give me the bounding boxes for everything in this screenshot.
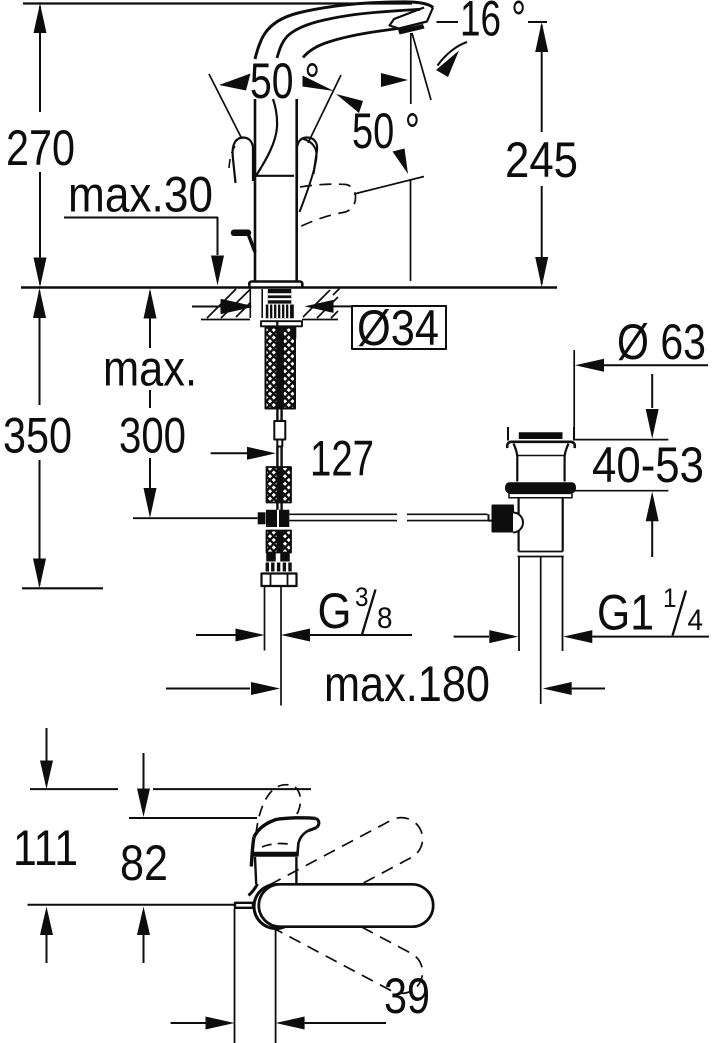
faucet base flange — [249, 282, 302, 288]
dimension diameter 34 arrows — [192, 300, 251, 313]
dimension 39 extension lines — [235, 909, 276, 1043]
svg-text:Ø 63: Ø 63 — [617, 314, 706, 370]
50 deg second open-position line — [354, 177, 424, 195]
bottom view handle under curve — [297, 831, 308, 857]
dimension diameter 63 arrow — [575, 359, 604, 372]
deck hatching left — [207, 289, 250, 318]
dimension G1 1/4 arrows — [454, 636, 489, 638]
bottom view handle grip dash — [262, 843, 290, 847]
hose collar bands — [266, 553, 291, 572]
dashed handle open position — [297, 184, 356, 228]
bottom view cartridge bar — [252, 852, 298, 857]
rod connector — [274, 421, 285, 447]
svg-text:127: 127 — [310, 431, 374, 487]
bottom view body flare — [249, 884, 258, 896]
svg-text:G1: G1 — [597, 585, 654, 641]
dimension G3/8 text — [318, 582, 393, 639]
bottom view handle top edge — [254, 818, 316, 837]
svg-text:8: 8 — [377, 602, 393, 635]
16 deg slanted line — [412, 33, 431, 100]
bottom view handle tip — [309, 818, 319, 830]
dimension 111 upper line — [30, 788, 311, 790]
horseshoe washer — [261, 321, 302, 326]
shank left gap line — [261, 289, 263, 318]
bottom view dashed spout upper position — [251, 810, 430, 932]
bottom view dashed spout lower position — [251, 879, 430, 1001]
svg-text:G: G — [318, 583, 352, 639]
svg-text:111: 111 — [13, 820, 78, 876]
drain body lower — [519, 498, 563, 552]
linkage tee block — [258, 512, 266, 524]
dimension 40-53 extension lines — [574, 440, 669, 491]
dimension 16 deg label line — [437, 21, 548, 23]
drain side port — [493, 506, 514, 532]
svg-text:50 °: 50 ° — [352, 103, 420, 159]
bottom view handle left edge — [251, 837, 254, 867]
drain center rod — [540, 557, 542, 704]
dimension diameter 63 extension line — [573, 350, 575, 438]
dimension 270 line — [39, 6, 41, 284]
svg-text:245: 245 — [505, 132, 578, 188]
handle knob left extreme lobe — [233, 138, 253, 184]
drain flange plate bottom lip — [507, 442, 575, 448]
svg-text:3: 3 — [355, 582, 369, 612]
drain flange plate sides — [508, 427, 574, 441]
svg-text:82: 82 — [120, 835, 168, 891]
50 deg first left ray — [209, 74, 242, 139]
drain bottom joint — [518, 552, 564, 557]
knurled section 3 — [267, 531, 292, 553]
bottom extension line (350) — [22, 587, 103, 589]
handle knob right extreme lobe — [297, 138, 317, 181]
dimension 111 down arrow — [46, 728, 48, 762]
svg-text:1: 1 — [663, 583, 677, 613]
svg-text:270: 270 — [6, 120, 75, 176]
handle knob left dashes — [229, 146, 235, 168]
bottom view dashed handle position — [256, 785, 300, 834]
drain neck line — [517, 455, 564, 457]
shank thread block — [268, 289, 292, 304]
svg-text:300: 300 — [119, 408, 186, 464]
linkage horizontal rod — [289, 514, 487, 520]
drain ball joint — [513, 513, 523, 533]
bottom view body circle — [254, 885, 298, 929]
dimension 82 upper line — [129, 817, 257, 819]
dimension 40-53 arrows — [651, 374, 653, 408]
handle neutral top bar — [256, 175, 294, 177]
handle knob right edge extension — [300, 139, 317, 212]
bottom view spout solid — [259, 884, 433, 926]
rod between connector and knurl 2 — [277, 447, 281, 468]
dimension 82 up arrow — [137, 907, 150, 936]
deck line — [21, 286, 557, 288]
pop-up pull rod knob — [234, 230, 248, 237]
spout tip end face — [390, 8, 434, 29]
16 deg arrowhead on vertical line — [381, 73, 408, 87]
svg-text:4: 4 — [688, 604, 704, 637]
pull rod upper — [277, 409, 281, 422]
svg-text:max.30: max.30 — [68, 167, 213, 223]
dimension G3/8 arrows — [196, 634, 236, 636]
faucet spout outer curve — [255, 2, 433, 59]
svg-text:Ø34: Ø34 — [357, 300, 439, 356]
top extension line — [23, 2, 412, 4]
dimension 245 line — [541, 25, 543, 284]
svg-text:40-53: 40-53 — [592, 437, 704, 493]
50 deg first right ray — [308, 75, 341, 143]
mounting hole edge left — [249, 289, 251, 319]
rod below knurl 2 — [277, 503, 281, 511]
svg-text:39: 39 — [384, 968, 430, 1024]
drain linkage left line — [133, 517, 258, 519]
16 deg vertical reference line — [410, 33, 412, 104]
drain seal ring — [505, 482, 576, 493]
drain tailpipe — [519, 557, 563, 651]
dimension max.30 leader — [64, 218, 218, 256]
hose nut — [262, 574, 297, 587]
dimension diameter 34 box — [352, 306, 446, 349]
dimension 82 down arrow — [143, 753, 145, 790]
dimension 39 arrows — [171, 1022, 206, 1024]
50 deg second arrowhead on handle ray — [336, 94, 363, 113]
svg-text:350: 350 — [3, 408, 72, 464]
dimension max.300 line — [149, 292, 151, 490]
flexible hose knurled section 1 — [266, 328, 297, 409]
faucet body sides — [255, 99, 297, 282]
svg-text:max.: max. — [103, 341, 197, 397]
drain top cap — [519, 432, 563, 439]
svg-text:max.180: max.180 — [324, 656, 490, 712]
50 deg second arrowhead on open line — [393, 149, 409, 175]
deck section bottom edges — [201, 319, 338, 321]
dimension 350 line — [39, 291, 41, 585]
mounting nut ribbed — [266, 305, 294, 319]
drain neck taper — [514, 444, 569, 482]
bottom reference line — [28, 904, 236, 906]
dimension G1 1/4 text — [597, 583, 703, 641]
dimension 127 leader — [211, 452, 247, 454]
dimension 111 up arrow — [40, 907, 53, 936]
dimension max.180 line — [166, 688, 250, 690]
svg-text:16 °: 16 ° — [460, 0, 526, 47]
faucet spout middle curve — [277, 9, 420, 58]
handle neutral inner curve — [257, 99, 278, 175]
pull rod shaft — [248, 234, 255, 253]
supply pipe lines — [264, 586, 266, 651]
50 deg second vertical line lower — [410, 181, 412, 282]
spout aerator slab — [398, 24, 425, 35]
faucet spout inner curve — [303, 29, 398, 58]
knurled section 2 — [267, 467, 292, 503]
bottom view aerator nub — [235, 903, 253, 908]
bottom view body sides — [255, 857, 296, 884]
16 deg arc arrow — [438, 42, 468, 66]
bottom view handle white fill — [251, 818, 319, 866]
deck hatching right — [303, 289, 340, 319]
